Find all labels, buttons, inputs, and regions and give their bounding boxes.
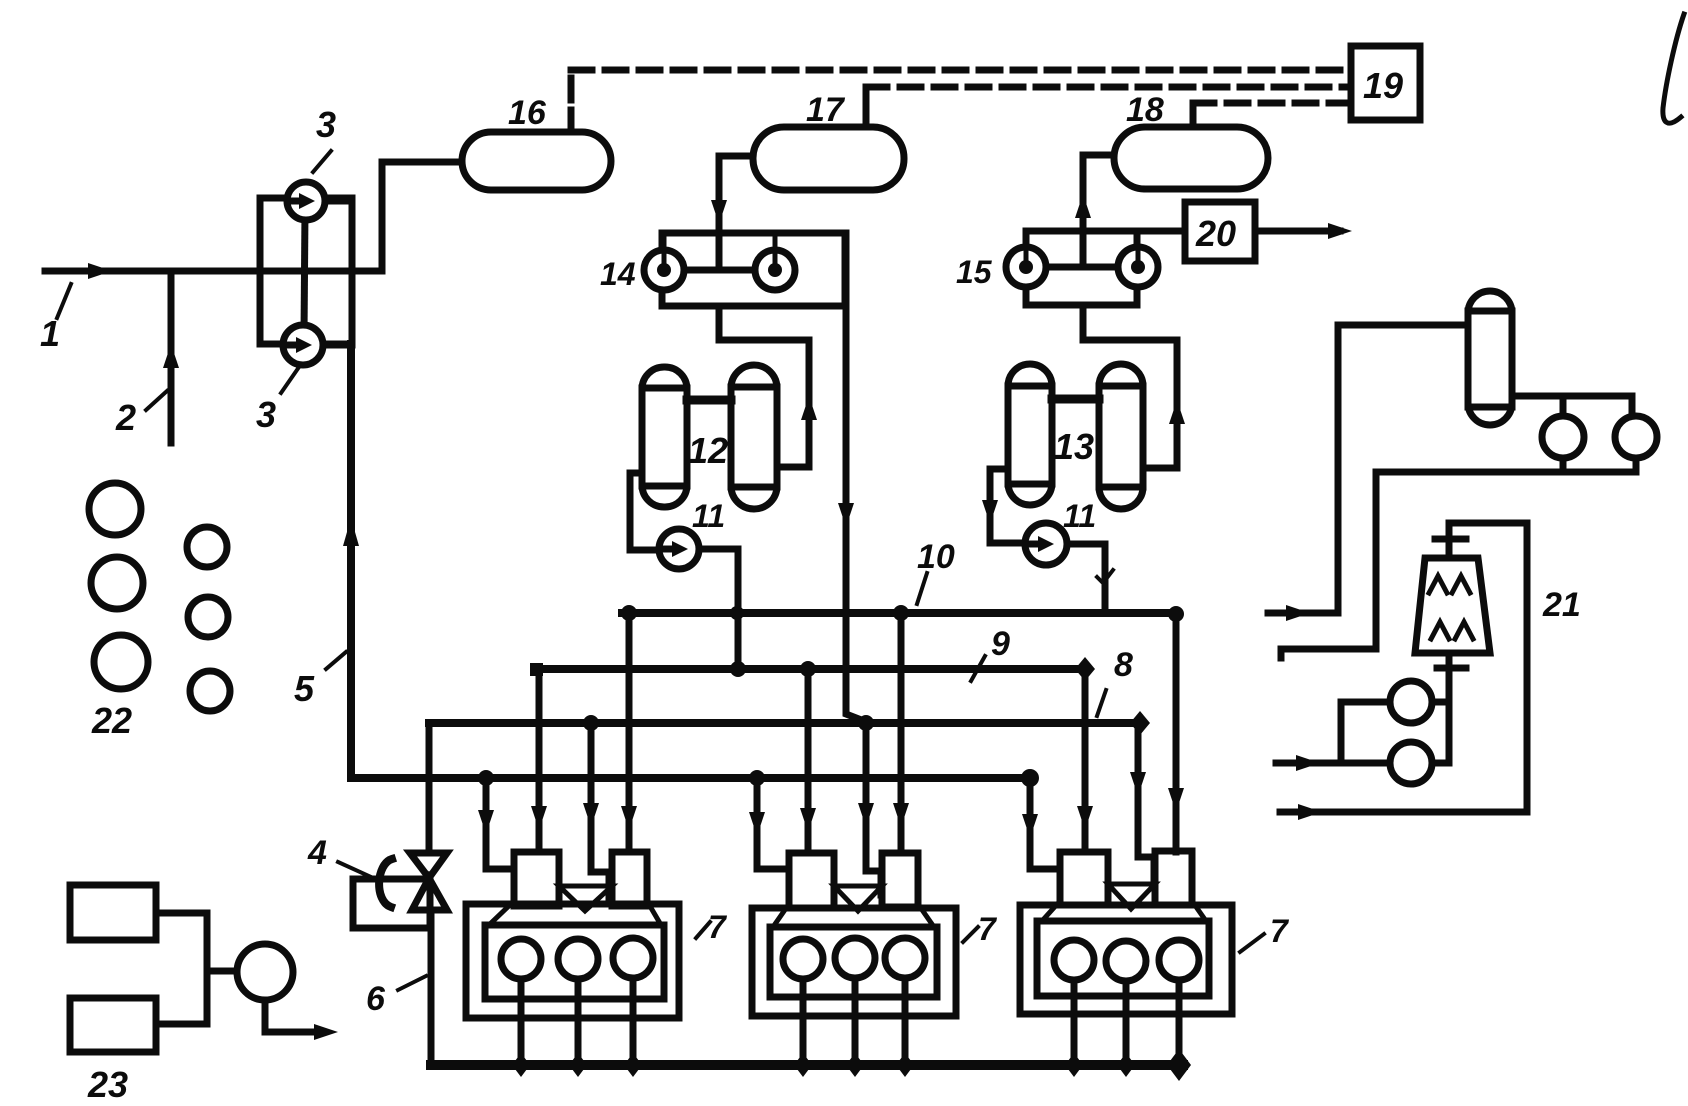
adsorber 12 crossover bar <box>687 396 731 405</box>
svg-text:19: 19 <box>1363 65 1403 106</box>
feed b to furnace 7 left <box>536 669 543 852</box>
pump 3 bottom outlet stub <box>323 342 352 349</box>
svg-text:16: 16 <box>508 94 547 132</box>
dashed signal line to 19 (top) <box>571 67 1351 74</box>
label 3 top tick <box>313 151 331 172</box>
main riser from block 14 down to line 8 <box>846 233 864 721</box>
adsorber 13 left column <box>1008 364 1052 505</box>
header line from 5 to furnaces <box>351 774 1030 782</box>
wire line 8 down to valve 4 <box>426 723 433 853</box>
furnace 7 left outer casing <box>466 904 679 1018</box>
furnace 7 right funnel <box>1108 884 1155 909</box>
svg-text:11: 11 <box>692 498 725 534</box>
label 3 bottom tick <box>281 367 299 393</box>
arrow on line 1 <box>88 263 112 279</box>
furnace 21 firebox trapezoid <box>1415 558 1490 653</box>
pump 11 right arrow <box>1028 541 1038 548</box>
furnace 21 top tee <box>1435 536 1466 543</box>
node diamond on line 8 right end <box>1130 711 1150 735</box>
label 10 tick <box>917 573 927 604</box>
spare circle 22 big 1 <box>89 483 141 535</box>
arrow up on vessel 12 riser <box>801 396 817 420</box>
furnace 7 right stack B <box>1155 851 1192 905</box>
exchanger circle right 2 <box>1615 416 1657 458</box>
feed d to furnace 7 middle <box>898 613 905 852</box>
furnace 7 right outer casing <box>1020 905 1232 1014</box>
node on furnace header right end <box>1021 769 1039 787</box>
dashed signal line to 19 (bottom) <box>1193 100 1351 107</box>
furnace 7 middle funnel <box>834 886 882 911</box>
wire column to exchanger circles <box>1512 396 1632 416</box>
feed b to furnace 7 right <box>1082 669 1089 852</box>
furnace 21 bottom tee <box>1437 665 1466 672</box>
pump 11 right circle <box>1025 523 1067 565</box>
furnace 7 middle shoulders <box>773 904 789 927</box>
node on line 10 left <box>621 605 637 621</box>
fuel manifold line 6 <box>431 1060 1183 1070</box>
block 14 right machine dot and stem <box>768 263 782 277</box>
stems below exchanger circles <box>1560 458 1567 472</box>
node on line 10 right corner <box>1168 606 1184 622</box>
wire line 2 <box>168 271 175 443</box>
adsorber 13 crossover bar <box>1052 395 1099 404</box>
wire collect line below circles <box>1281 472 1636 649</box>
node diamond on line 9 right end <box>1075 657 1095 681</box>
wire pump 11 right to line 10 <box>1067 544 1105 613</box>
wire between block 15 machines <box>1046 264 1118 271</box>
header line 8 <box>429 719 1140 727</box>
svg-text:23: 23 <box>87 1064 128 1105</box>
pump 11 left arrow <box>662 546 672 553</box>
pump circle 21 upper <box>1390 681 1432 723</box>
arrow on unit 23 outlet <box>314 1024 338 1040</box>
arrow on box 20 outlet <box>1328 223 1352 239</box>
furnace 7 right stack A <box>1060 852 1108 905</box>
valve 4 body top <box>410 853 447 878</box>
stray tick mark <box>1097 570 1113 583</box>
svg-text:3: 3 <box>316 104 336 145</box>
feed c to furnace 7 right <box>1138 723 1154 880</box>
compressor block 14 loop <box>662 233 845 306</box>
feed d to furnace 7 right <box>1173 613 1180 852</box>
manifold junction diamonds <box>512 1053 530 1077</box>
node on line 9 from pump 11 <box>730 661 746 677</box>
dashed signal line to 19 (middle) <box>866 84 1351 91</box>
node on line 8 left <box>583 715 599 731</box>
node label 1 tick <box>57 284 71 318</box>
label 9 tick <box>971 656 985 681</box>
label 6 tick <box>398 976 426 990</box>
svg-text:18: 18 <box>1126 91 1164 129</box>
svg-text:7: 7 <box>978 911 998 947</box>
svg-text:20: 20 <box>1195 213 1236 254</box>
arrow up on vessel 13 riser <box>1169 400 1185 424</box>
valve 4 body bottom <box>412 878 447 910</box>
adsorber 12 left column <box>642 367 687 507</box>
svg-text:5: 5 <box>294 668 315 709</box>
arrow on left end of collect line <box>1278 649 1285 658</box>
arrow down into block 14 <box>711 200 727 224</box>
node on line 9 middle <box>800 661 816 677</box>
arrow down to pump 11 right <box>982 500 998 524</box>
spare circle 22 big 2 <box>91 557 143 609</box>
stubs to pump circles right <box>1432 699 1449 706</box>
arrow down on main riser <box>838 503 854 527</box>
node on line 8 middle <box>858 715 874 731</box>
pump circle 21 lower <box>1390 742 1432 784</box>
stray pen mark top right <box>1663 14 1684 123</box>
svg-text:22: 22 <box>91 700 132 741</box>
furnace 7 left drains <box>518 979 525 1065</box>
furnace 7 left stack B <box>612 852 647 906</box>
feed a to furnace 7 left <box>486 778 514 869</box>
pump 11 left circle <box>659 529 699 569</box>
wire between block 14 machines <box>684 267 755 274</box>
wire furnace 21 top to riser <box>1449 520 1527 527</box>
heat exchanger 3 body <box>260 198 352 344</box>
svg-text:9: 9 <box>991 625 1010 663</box>
block 14 right machine circle <box>755 250 795 290</box>
valve 4 stem link <box>395 876 412 883</box>
furnace 7 left inner box <box>485 925 664 999</box>
line 5 riser <box>347 344 355 778</box>
wire block 15 outlet to vessel 13 <box>1083 305 1177 468</box>
svg-text:7: 7 <box>1270 913 1290 949</box>
block 14 left machine dot and stem <box>657 263 671 277</box>
furnace 7 middle stack A <box>789 853 834 908</box>
node on furnace header middle <box>749 770 765 786</box>
riser 21 <box>1524 523 1531 812</box>
svg-text:3: 3 <box>256 394 276 435</box>
inlet arrow line right section <box>1268 610 1338 617</box>
valve 4 actuator crescent <box>379 859 392 907</box>
feed c to furnace 7 middle <box>866 723 881 895</box>
furnace 7 left burners <box>501 939 541 979</box>
compressor block 15 loop <box>1026 231 1137 305</box>
furnace 7 right inner box <box>1037 921 1209 996</box>
node on line 10 at pump riser <box>730 606 744 620</box>
exchanger circle right 1 <box>1542 416 1584 458</box>
spare circle 22 big 3 <box>94 635 148 689</box>
svg-text:2: 2 <box>115 397 136 438</box>
svg-text:11: 11 <box>1063 498 1096 534</box>
feed d to furnace 7 left <box>626 613 633 852</box>
wire block 15 header to box 20 <box>1026 228 1185 235</box>
right column vessel <box>1468 291 1512 425</box>
svg-text:15: 15 <box>956 254 993 290</box>
feed b to furnace 7 middle <box>805 669 812 852</box>
unit 23 meter circle <box>237 944 293 1000</box>
unit 23 lower box <box>70 998 156 1052</box>
furnace 7 middle stack B <box>882 853 918 907</box>
arrow up on line 5 <box>343 518 359 546</box>
label 8 tick <box>1097 690 1106 716</box>
block 15 left machine dot and stem <box>1019 260 1033 274</box>
label 4 tick <box>338 862 371 877</box>
pump circle 3 bottom <box>283 325 323 365</box>
svg-text:13: 13 <box>1054 426 1094 467</box>
exchanger 3 inner tube <box>304 210 305 335</box>
wire vessel 18 to block 15 <box>1083 155 1114 267</box>
vessel 17 riser <box>863 87 870 127</box>
pump 3 bottom arrow <box>286 342 296 349</box>
furnace 7 middle drains <box>800 979 807 1065</box>
adsorber 13 right column <box>1099 364 1143 509</box>
bottom feed arrow line to riser 21 <box>1280 809 1527 816</box>
adsorber 12 right column <box>731 365 777 509</box>
block 14 left machine circle <box>644 250 684 290</box>
furnace 21 carets row 2 <box>1431 622 1473 639</box>
svg-text:4: 4 <box>307 834 327 872</box>
furnace 7 middle inner box <box>770 927 937 997</box>
pump circle 3 top <box>287 182 325 220</box>
wire vessel 17 to block 14 <box>719 156 753 270</box>
spare circle 22 small 3 <box>190 671 230 711</box>
wire pump 11 left to line 9 <box>699 549 738 669</box>
header line 10 <box>622 609 1176 617</box>
node on furnace header left <box>478 770 494 786</box>
instrument box 20 <box>1185 202 1255 261</box>
controller box 19 <box>1351 46 1420 120</box>
svg-text:10: 10 <box>917 538 955 576</box>
svg-text:1: 1 <box>40 313 60 354</box>
spare circle 22 small 2 <box>188 597 228 637</box>
furnace 7 right burners <box>1054 940 1094 980</box>
wire inlet to right column <box>1338 325 1468 613</box>
furnace 7 left stack A <box>514 852 559 906</box>
spare circle 22 small 1 <box>187 527 227 567</box>
vessel 16 <box>462 132 611 190</box>
feed a to furnace 7 middle <box>757 778 789 869</box>
pump 3 top arrow <box>289 198 299 205</box>
svg-text:7: 7 <box>708 909 728 945</box>
node on line 9 left end <box>530 663 543 676</box>
block 15 right machine circle <box>1118 247 1158 287</box>
svg-text:8: 8 <box>1114 646 1133 684</box>
unit 23 wires <box>156 913 207 1024</box>
pump 3 top outlet stub <box>325 198 352 205</box>
arrow on line 2 <box>163 344 179 368</box>
label 7 ticks <box>696 922 710 938</box>
valve 4 actuator box <box>353 879 430 928</box>
wire down from collect corner crossing <box>1373 472 1380 649</box>
node on line 10 middle <box>893 605 909 621</box>
wire block 14 outlet to vessel 12 <box>719 306 809 467</box>
vessel 18 riser <box>1190 103 1197 127</box>
feed arrow line into lower pump <box>1276 760 1390 767</box>
furnace 7 middle outer casing <box>752 908 956 1016</box>
wire riser to vessel 16 <box>382 162 462 271</box>
furnace 7 right shoulders <box>1042 901 1060 921</box>
wire valve 4 to manifold 6 <box>428 910 435 1065</box>
vessel 18 <box>1114 127 1268 189</box>
svg-text:6: 6 <box>366 980 386 1018</box>
block 15 left machine circle <box>1006 247 1046 287</box>
label 5 tick <box>326 652 346 669</box>
furnace 7 middle burners <box>783 939 823 979</box>
block 15 right machine dot and stem <box>1131 260 1145 274</box>
furnace 7 left funnel <box>559 886 612 911</box>
feed c to furnace 7 left <box>591 723 609 903</box>
unit 23 upper box <box>70 885 156 940</box>
furnace 7 right drains <box>1071 980 1078 1065</box>
vessel 17 <box>753 127 904 190</box>
wire feed line 1 <box>45 268 382 275</box>
wire vessel 12 to pump 11 left <box>630 473 659 550</box>
stem to left exchanger circle <box>1560 396 1567 416</box>
svg-text:12: 12 <box>688 430 728 471</box>
svg-text:21: 21 <box>1542 586 1581 624</box>
label 2 tick <box>146 391 167 410</box>
svg-text:17: 17 <box>806 91 846 129</box>
wire box 20 outlet <box>1255 228 1340 235</box>
vessel 16 riser <box>568 70 575 132</box>
wire vessel 13 to pump 11 right <box>990 469 1024 543</box>
header line 9 <box>536 665 1085 673</box>
furnace 21 carets row 1 <box>1429 576 1470 593</box>
arrow up to vessel 18 <box>1075 194 1091 218</box>
wire into pumps 21 <box>1341 702 1390 763</box>
feed a to furnace 7 right <box>1030 778 1060 869</box>
svg-text:14: 14 <box>600 256 636 292</box>
furnace 7 left shoulders <box>489 901 514 925</box>
unit 23 outlet wire <box>265 1000 322 1032</box>
